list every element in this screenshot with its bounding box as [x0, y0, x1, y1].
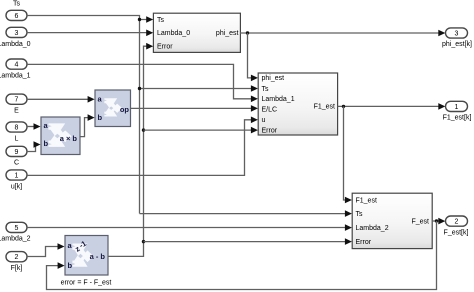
svg-text:8: 8 — [15, 125, 19, 132]
node F1_est junction — [342, 105, 345, 108]
wire phi_est: U1 out to outport3 — [240, 32, 439, 34]
node phi_est junction — [246, 31, 249, 34]
svg-text:Ts: Ts — [356, 211, 364, 218]
svg-text:b: b — [44, 139, 49, 148]
wire op out to U2 E/LC — [131, 107, 252, 109]
wire F: port2 to subtract a — [27, 247, 58, 257]
node F_est junction — [435, 219, 438, 222]
svg-text:E: E — [14, 108, 19, 115]
subsystem U3 F estimator — [352, 193, 432, 248]
svg-text:Lambda_2: Lambda_2 — [356, 225, 389, 232]
svg-text:1: 1 — [15, 173, 19, 180]
node error-U2 junction — [142, 128, 145, 131]
svg-text:4: 4 — [15, 62, 19, 69]
svg-text:1: 1 — [455, 104, 459, 111]
xilinx addsub block a-b with z-1 — [65, 236, 108, 276]
node error-U3 junction — [142, 240, 145, 243]
svg-text:Ts: Ts — [262, 86, 270, 93]
xilinx mult block a×b — [41, 117, 80, 155]
svg-text:Lambda_1: Lambda_1 — [262, 96, 295, 103]
wire phi_est branch to U2 — [248, 33, 252, 78]
wire Ts branch to U2 — [140, 88, 252, 90]
wire F_est: U3 out to outport2 — [432, 220, 439, 222]
wire F1_est branch to U3 — [344, 106, 346, 200]
wire u: port1 to U2 — [27, 120, 252, 176]
subsystem U1 phi estimator — [153, 13, 240, 52]
wire E: port7 to addsub a — [27, 98, 88, 100]
svg-text:Lambda_0: Lambda_0 — [0, 41, 31, 48]
wire C: port9 to mult b — [27, 145, 36, 152]
inport 7 (E) — [6, 94, 27, 104]
inport 9 (C) — [6, 146, 27, 156]
svg-text:phi_est: phi_est — [216, 30, 239, 37]
svg-text:F_est[k]: F_est[k] — [444, 229, 469, 236]
svg-text:6: 6 — [15, 13, 19, 20]
svg-text:F1_est: F1_est — [314, 103, 335, 110]
svg-text:u[k]: u[k] — [11, 183, 22, 190]
inport 1 (u[k]) — [6, 170, 27, 180]
svg-text:7: 7 — [15, 97, 19, 104]
svg-text:Lambda_2: Lambda_2 — [0, 236, 31, 243]
svg-text:F[k]: F[k] — [11, 265, 23, 272]
svg-text:Error: Error — [356, 239, 372, 246]
inport 2 (F[k]) — [6, 252, 27, 262]
outport 3 (phi_est[k]) — [446, 28, 468, 38]
svg-text:u: u — [262, 117, 266, 124]
svg-text:op: op — [120, 105, 130, 114]
svg-text:L: L — [15, 135, 19, 142]
wire F1_est: U2 out to outport1 — [338, 105, 439, 107]
inport 8 (L) — [6, 122, 27, 132]
wire Lambda_0: port3 to U1 — [27, 32, 147, 34]
svg-text:E/LC: E/LC — [262, 106, 278, 113]
svg-text:Error: Error — [262, 127, 278, 134]
wire L: port8 to mult a — [27, 126, 34, 128]
svg-text:a - b: a - b — [90, 252, 106, 261]
svg-text:F1_est[k]: F1_est[k] — [443, 115, 472, 122]
svg-text:phi_est[k]: phi_est[k] — [442, 41, 472, 48]
svg-text:2: 2 — [455, 219, 459, 226]
svg-text:Ts: Ts — [13, 1, 21, 8]
svg-text:F1_est: F1_est — [356, 197, 377, 204]
svg-text:error = F - F_est: error = F - F_est — [61, 280, 112, 287]
svg-text:3: 3 — [455, 31, 459, 38]
svg-text:a × b: a × b — [60, 134, 78, 143]
node Ts-U1 junction — [138, 18, 141, 21]
svg-text:F_est: F_est — [411, 218, 429, 225]
outport 1 (F1_est[k]) — [446, 101, 468, 111]
inport 5 (Lambda_2) — [6, 222, 27, 232]
svg-text:Lambda_0: Lambda_0 — [157, 30, 190, 37]
svg-text:3: 3 — [15, 30, 19, 37]
wire error branch to U2 — [144, 129, 252, 131]
svg-text:Error: Error — [157, 43, 173, 50]
wire F_est feedback to subtract b — [47, 221, 437, 290]
wire Ts: port6 to U1 and down — [27, 16, 147, 20]
svg-text:9: 9 — [15, 149, 19, 156]
wire Ts vertical trunk — [139, 20, 141, 214]
wire error: subtract out trunk — [108, 46, 148, 256]
wire mult out to addsub b — [80, 118, 91, 137]
svg-text:Lambda_1: Lambda_1 — [0, 72, 31, 79]
svg-text:5: 5 — [15, 225, 19, 232]
svg-text:b: b — [68, 261, 73, 270]
svg-text:C: C — [14, 160, 19, 167]
svg-text:phi_est: phi_est — [262, 75, 285, 82]
inport 4 (Lambda_1) — [6, 59, 27, 69]
wire Lambda_2: port5 to U3 — [27, 227, 346, 229]
inport 3 (Lambda_0) — [6, 27, 27, 37]
wire error branch to U3 — [144, 241, 346, 243]
node Ts-U2 junction — [138, 87, 141, 90]
wire Ts branch to U3 — [140, 213, 346, 215]
svg-text:Ts: Ts — [157, 17, 165, 24]
svg-text:2: 2 — [15, 254, 19, 261]
wire Lambda_1: port4 to U2 — [27, 64, 252, 98]
outport 2 (F_est[k]) — [446, 216, 468, 226]
subsystem U2 F1 estimator — [258, 73, 337, 135]
svg-text:b: b — [98, 113, 103, 122]
inport 6 (Ts) — [6, 10, 27, 20]
xilinx addsub block op — [95, 90, 131, 127]
